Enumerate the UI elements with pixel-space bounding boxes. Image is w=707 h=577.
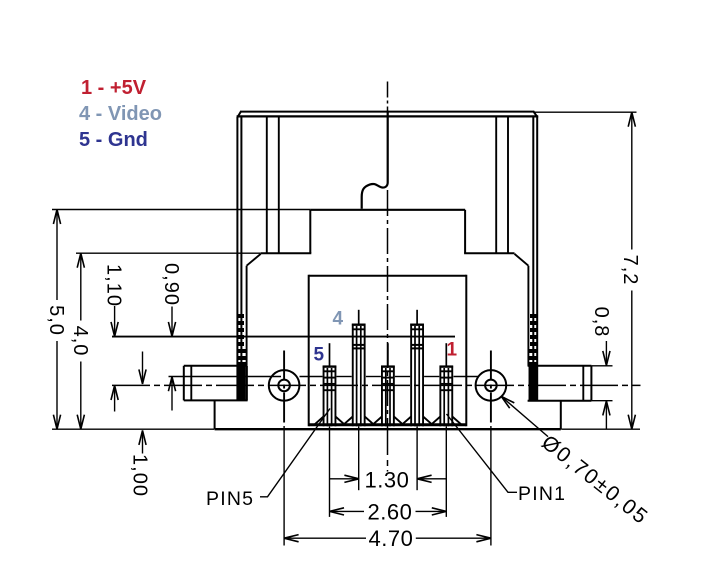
pin 4 (tall) [344,310,374,427]
dim 4.70 line and arrows [284,537,366,539]
base left side [214,400,216,429]
leader PIN5 [260,409,330,497]
dim 4.0 line [80,253,82,320]
middle block top edge [310,209,465,211]
leader hole diameter [501,396,548,436]
pin 5 extension line down [329,426,331,517]
svg-text:7,2: 7,2 [619,255,641,286]
pin housing box right [465,275,467,427]
svg-text:0,8: 0,8 [590,307,612,338]
shoulder chamfer right [515,254,529,266]
svg-text:2.60: 2.60 [367,499,412,524]
right lug top extension [591,365,612,367]
left mounting hole outer [269,370,300,401]
shield seam with s-curve [362,111,388,209]
left wall lug overlap bar [237,366,246,401]
middle block right side [464,210,466,253]
svg-text:4: 4 [333,309,344,330]
pin 4 extension line down [358,426,360,490]
leader PIN1 [447,414,518,492]
left wall outer line [236,117,238,401]
svg-text:1,00: 1,00 [129,454,151,497]
hole extension down right [490,426,492,546]
centerline vertical bottom [387,426,389,472]
left wall crimp serrations [237,316,247,364]
dim 0.8 arrows [605,341,607,365]
body top edge outer [241,111,534,113]
svg-text:5 - Gnd: 5 - Gnd [79,129,148,151]
pin 1 [432,343,462,426]
dim 0.90 arrows [171,307,173,337]
extension line y336 (1.10/0.90 top) [112,336,455,338]
right lug left end double line [529,366,531,401]
pin 5 [315,343,345,426]
dim 1.10 arrows [114,306,116,336]
right mounting hole outer [476,370,507,401]
body top edge inner [237,115,539,117]
svg-text:5,0: 5,0 [45,305,67,336]
svg-text:1 - +5V: 1 - +5V [81,77,147,99]
left mounting hole inner [278,380,290,392]
top right corner chamfer [533,111,537,117]
dim 1.30 line and arrows [330,478,359,480]
extension line bottom right [562,428,641,430]
centerline vertical top [387,82,389,112]
left inner shield line 1 [266,116,268,253]
svg-text:4 - Video: 4 - Video [79,103,162,125]
pin 1 extension line down [445,426,447,517]
side wall left below chamfer [246,266,248,366]
svg-text:1: 1 [447,340,458,361]
left wall inner line [240,117,242,401]
svg-text:5: 5 [314,345,325,366]
right wall lug overlap bar [529,366,538,401]
right inner shield line 2 [507,116,509,253]
extension line y253 (4.0 top) [76,252,261,254]
hole center vertical left [283,351,285,426]
right lug inner end line [582,366,584,401]
right wall outer line [536,117,538,401]
pin 3 [373,343,403,426]
left lug right end double line [244,366,246,401]
base bottom edge [215,428,561,430]
svg-text:4.70: 4.70 [368,526,413,551]
extension line bottom left [52,428,214,430]
pin 2 extension line down [416,426,418,490]
centerline vertical middle [387,190,389,426]
right lug bottom extension [591,400,612,402]
hole extension down left [283,426,285,546]
right wall crimp serrations [528,316,538,364]
svg-text:0,90: 0,90 [160,263,182,306]
base right side [560,401,562,430]
pin housing box bottom thick [309,423,467,426]
side wall right below chamfer [527,266,529,366]
extension/edge line y376 segments [169,376,282,378]
dim 5.0 line [56,210,58,301]
top left corner chamfer [237,111,241,117]
pin housing box left [308,275,310,427]
svg-text:1.30: 1.30 [364,468,409,493]
shoulder chamfer left [247,254,261,266]
centerline horizontal [112,384,641,386]
extension line y209 (5.0 top) [52,209,310,211]
pin 2 (tall) [402,310,432,427]
shoulder line right [464,252,514,254]
dim 1.00 arrows [142,352,144,384]
left inner shield line 2 [278,116,280,253]
dim 2.60 line and arrows [330,510,365,512]
svg-text:4,0: 4,0 [69,326,91,357]
svg-text:PIN5: PIN5 [206,488,254,510]
right mounting hole inner [485,380,497,392]
right wall inner line [532,117,534,401]
left mounting lug [184,365,247,367]
svg-text:PIN1: PIN1 [518,483,566,505]
hole center vertical right [490,351,492,426]
right inner shield line 1 [495,116,497,253]
extension line top right (7.2) [535,111,637,113]
dim 7.2 line [631,112,633,249]
pin housing box top [309,275,467,277]
shoulder line left [261,252,312,254]
svg-text:1,10: 1,10 [103,264,125,307]
right mounting lug [528,365,592,367]
middle block left side [309,210,311,253]
left lug inner end line [190,366,192,401]
